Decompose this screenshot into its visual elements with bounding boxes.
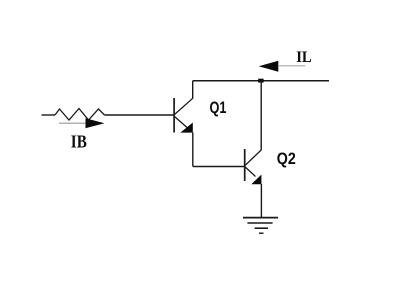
transistor Q2 emitter diagonal	[245, 167, 255, 177]
transistor Q1 emitter diagonal	[175, 117, 188, 128]
transistor Q1 collector lead vertical	[192, 81, 194, 99]
resistor RB	[55, 109, 105, 121]
transistor Q1 base bar	[173, 98, 175, 133]
transistor Q1 emitter lead vertical	[192, 133, 194, 167]
transistor Q2 emitter lead vertical	[260, 184, 262, 218]
wire top rail	[193, 80, 329, 82]
svg-text:IL: IL	[296, 49, 312, 66]
svg-text:Q2: Q2	[277, 149, 296, 168]
transistor Q2 base bar	[244, 149, 246, 181]
transistor Q2 collector lead vertical	[260, 81, 262, 150]
ground bar 3	[255, 227, 268, 229]
ground bar 4	[259, 232, 264, 234]
ground bar 2	[247, 222, 272, 224]
wire input lead left	[42, 114, 56, 116]
transistor Q1 collector diagonal	[175, 98, 193, 114]
current arrow IB head	[86, 118, 105, 128]
current arrow IL head	[259, 61, 279, 72]
ground bar 1	[243, 217, 278, 219]
transistor Q1 emitter arrowhead	[180, 123, 193, 133]
wire Q1 emitter to Q2 base	[193, 166, 244, 168]
wire resistor to Q1 base	[105, 114, 174, 116]
svg-text:Q1: Q1	[210, 98, 227, 117]
svg-text:IB: IB	[71, 132, 87, 152]
transistor Q2 collector diagonal	[245, 150, 261, 165]
transistor Q2 emitter arrowhead	[251, 175, 261, 185]
junction dot	[258, 79, 263, 83]
current arrow IB shaft	[59, 122, 87, 124]
current arrow IL shaft	[278, 65, 305, 67]
